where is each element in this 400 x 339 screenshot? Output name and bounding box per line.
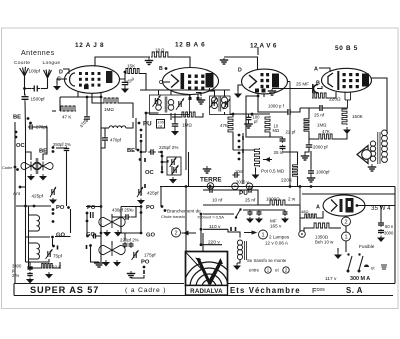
wire left col down [25, 129, 27, 158]
ground col2 [94, 262, 104, 267]
wire heater tr bot [237, 260, 240, 263]
wire 2000pf top [308, 136, 310, 143]
switch bar 110b [235, 227, 237, 231]
wire 3400 top [29, 262, 31, 265]
wire 47pf top [86, 97, 88, 115]
svg-text:GO: GO [56, 233, 66, 239]
osc bowtie coil 2 [99, 244, 125, 256]
svg-text:100pf: 100pf [29, 69, 41, 74]
capacitor mf a [248, 210, 253, 216]
ground bowtie2 b [113, 260, 121, 267]
ground 150K [343, 127, 351, 134]
capacitor AVC bypass [172, 121, 179, 129]
wire long bus y186 [160, 186, 395, 188]
arrow into circled1 [244, 231, 256, 234]
node antenna [23, 87, 26, 90]
svg-text:47K: 47K [322, 129, 330, 134]
svg-text:A: A [316, 205, 320, 211]
capacitor 47pf [84, 114, 90, 122]
cap mark col2 a [91, 212, 94, 218]
capacitor 100pf det [246, 114, 252, 122]
svg-text:OC: OC [16, 143, 26, 149]
node x186 bus [185, 185, 188, 188]
wire bowtie1 top [111, 214, 113, 217]
resistor 15K [125, 69, 140, 74]
wire x101 long [100, 130, 102, 262]
wire x121 col [120, 207, 122, 234]
capacitor mf b [257, 210, 262, 216]
ground pot [252, 172, 260, 179]
node V5 plate [356, 204, 359, 207]
capacitor 3400pf a [27, 265, 33, 271]
IF1 secondary winding [168, 100, 174, 111]
wire po row col3 [121, 206, 141, 208]
wire down left column [24, 102, 27, 130]
node be mid [137, 149, 140, 152]
wire r1000 left [258, 204, 269, 206]
svg-text:PU: PU [143, 121, 152, 128]
svg-text:D: D [238, 68, 242, 74]
svg-text:75pf: 75pf [53, 254, 63, 259]
svg-text:1: 1 [261, 232, 264, 238]
wire 220pf joins [124, 233, 126, 241]
wire ant node to cap [25, 88, 32, 90]
resistor 47K IF [228, 116, 233, 133]
ground 22k [45, 272, 53, 279]
tube V3 12AV6 [242, 69, 288, 94]
wire 15K to bus [140, 74, 146, 91]
ant transformer core [36, 158, 38, 174]
wire sw col x70 [70, 209, 72, 233]
circled 1 mid [259, 230, 268, 239]
wire v5 mid [345, 226, 347, 232]
node det y114 [232, 113, 235, 116]
wire longue to cap [41, 88, 48, 90]
wire det col down [242, 133, 244, 170]
svg-text:150K: 150K [352, 114, 364, 119]
wire go row c1 [55, 236, 71, 238]
wire V3 plate right [288, 81, 291, 83]
node x146 y113 [145, 112, 148, 115]
switch contact a [140, 129, 143, 132]
wire heater to V2 [169, 57, 190, 68]
svg-text:D: D [59, 70, 63, 76]
capacitor mf c [283, 210, 288, 216]
wire x141 be down [140, 152, 142, 196]
svg-text:PU: PU [239, 190, 248, 197]
ground 425pf a [49, 198, 57, 204]
ground above V3 [220, 58, 229, 64]
node branchement [164, 209, 167, 212]
wire 220 left [312, 94, 313, 99]
svg-text:430pf 25‰: 430pf 25‰ [112, 208, 134, 213]
wire IF1 top right [170, 90, 172, 95]
capacitor 25MF electrolytic [313, 84, 318, 93]
antenna Courte [20, 67, 29, 84]
wire 2000pf gnd [305, 149, 309, 153]
wire V3 below [257, 94, 259, 97]
wire be 225 right [158, 152, 162, 156]
capacitor 1000pf coup [285, 109, 293, 115]
trimmer IF1 secondary [176, 98, 184, 109]
tube V2 12BA6 [163, 68, 219, 95]
node B V2 [165, 67, 168, 70]
wire pot gnd lk [255, 168, 257, 173]
sw po2 a [86, 212, 89, 215]
trimmer mid b [172, 165, 179, 175]
title band rule top right [228, 283, 395, 285]
switch bar oc3 [144, 184, 146, 188]
title band rule top left [14, 283, 184, 285]
node mains a [200, 228, 203, 231]
svg-text:12 A J 8: 12 A J 8 [75, 42, 104, 49]
resistor 47K af [318, 134, 333, 139]
svg-text:25 nf: 25 nf [274, 150, 285, 155]
node mains top [200, 213, 203, 216]
node 25nf [124, 71, 127, 74]
osc coil left b [29, 243, 40, 259]
capacitor 50nf [378, 221, 384, 227]
wire po row col2 [86, 206, 101, 208]
terminal PU a [232, 183, 239, 190]
wire bus y90 [140, 89, 192, 91]
capacitor 1500pf [22, 94, 29, 103]
node bus y186 a [209, 185, 212, 188]
wire IF2 sec down [230, 115, 233, 117]
osc bowtie coil 1 [99, 216, 125, 228]
wire x343 down [344, 92, 346, 101]
wire go row col2 [97, 235, 101, 237]
capacitor 220pf b [129, 242, 134, 248]
sw go2 a [86, 235, 89, 238]
wire V3 cath gnd [238, 85, 243, 91]
wire x186 logo [185, 187, 187, 206]
sw go3 a [140, 232, 143, 235]
svg-text:SUPER AS 57: SUPER AS 57 [30, 285, 99, 295]
svg-text:220pf 2%: 220pf 2% [120, 238, 139, 243]
node cadre a [14, 166, 17, 169]
ground 1000pf tone [307, 176, 316, 182]
IF2 primary winding [212, 97, 218, 109]
wire be left lead [141, 151, 146, 153]
svg-text:165 v: 165 v [270, 224, 282, 229]
svg-text:225pf 2%: 225pf 2% [159, 145, 178, 150]
svg-text:220Ω: 220Ω [329, 97, 341, 103]
capacitor 1000pf tone [308, 168, 314, 176]
trimmer 175pf [132, 250, 139, 260]
wire pu caps [203, 189, 208, 191]
wire 270 right [34, 127, 47, 140]
svg-text:PO: PO [87, 205, 96, 211]
trimmer mid a [170, 157, 177, 167]
svg-text:S. A: S. A [346, 286, 363, 295]
antenna Longue [44, 70, 52, 89]
capacitor 25nf ag [317, 105, 325, 111]
switch lever 700mv [236, 210, 240, 217]
terminal left v5 [299, 231, 306, 238]
terminal TERRE [207, 183, 214, 190]
IF1 can box [150, 95, 190, 115]
tube V5 35W4 [323, 195, 365, 216]
wire 1350 left [304, 228, 313, 231]
wire 1M af top [308, 108, 310, 118]
sw po1 a [52, 220, 55, 223]
svg-text:BE: BE [127, 148, 135, 154]
output transformer secondary [370, 141, 375, 161]
resistor 18 ohm [151, 52, 169, 57]
capacitor 25nf line [246, 187, 253, 193]
ground heater [145, 57, 154, 65]
ground trim mid [169, 177, 177, 184]
wire 25MF right [317, 86, 322, 89]
wire mf caps row [243, 209, 285, 211]
svg-text:Ant: Ant [13, 191, 21, 196]
wire trim mid link [171, 166, 173, 174]
wire gnd 1350 [337, 248, 339, 252]
wire oc col [161, 156, 163, 172]
wire x136 long [135, 118, 137, 150]
svg-text:1000Ω: 1000Ω [266, 197, 280, 202]
wire sw col x141 [140, 207, 142, 234]
svg-text:250pf 2%: 250pf 2% [53, 142, 71, 147]
svg-text:GO: GO [146, 233, 156, 239]
svg-text:MΩ: MΩ [273, 128, 280, 133]
trimmer IF2 primary [209, 98, 216, 109]
resistor 1M AVC [181, 112, 196, 117]
wire x161 down [160, 187, 162, 208]
svg-text:1500pf: 1500pf [31, 97, 46, 102]
svg-text:50 n f: 50 n f [385, 224, 396, 229]
circled 2 mid [172, 228, 181, 237]
wire sw col x86 [86, 213, 88, 236]
wire AVC left [172, 116, 181, 118]
node osc coil a [33, 205, 36, 208]
node x25 y206 [24, 205, 27, 208]
sw po3 b [140, 211, 143, 214]
wire C to tube V1 [62, 78, 67, 80]
wire tr1 left top [26, 152, 32, 160]
capacitor 100pf [31, 86, 40, 92]
ground 1350 [334, 252, 342, 259]
wire IF1 top left [158, 90, 160, 95]
wire ot top [386, 131, 388, 133]
wire oc trim [162, 160, 168, 162]
capacitor 470pf [102, 135, 108, 143]
wire x300 to term [299, 205, 301, 231]
svg-text:47K: 47K [220, 123, 228, 128]
wire 270 to tr1 [43, 140, 47, 160]
ground below V3 [234, 91, 242, 98]
node 425 b [52, 212, 55, 215]
svg-text:B: B [159, 66, 163, 72]
wire bus y205 left [203, 204, 258, 206]
ground terre [203, 166, 212, 173]
svg-text:entre: entre [249, 268, 260, 273]
wire terre up [209, 184, 211, 186]
svg-text:2000 pf: 2000 pf [313, 145, 328, 150]
sw det a [238, 134, 241, 137]
wire x290 v [289, 82, 291, 187]
capacitor 270pf [28, 125, 34, 130]
wire 220 row [203, 244, 222, 246]
node be mid2 [140, 151, 143, 154]
svg-text:BE: BE [39, 148, 47, 154]
sw po2 b [86, 220, 89, 223]
wire x186 from res [185, 119, 187, 150]
title band rule bottom [14, 295, 393, 297]
svg-text:BE: BE [13, 115, 21, 121]
wire 50nf top [380, 206, 382, 222]
svg-text:22 pf: 22 pf [286, 130, 297, 135]
node bus y186 c [310, 185, 313, 188]
ground mf c [281, 217, 289, 223]
ground heater tr [233, 263, 241, 270]
wire mid gnd [131, 275, 144, 278]
capacitor 3000 [378, 229, 384, 234]
svg-text:220K: 220K [281, 178, 293, 184]
sw po3 a [140, 205, 143, 208]
wire D to tube V1 [63, 69, 69, 74]
resistor 1350 ohm [313, 223, 330, 228]
svg-text:( a Cadre ): ( a Cadre ) [125, 287, 166, 294]
sw go3 b [161, 205, 164, 208]
capacitor go2 [92, 234, 97, 239]
resistor 220K [293, 164, 298, 177]
svg-text:B: B [316, 81, 320, 87]
ground bowtie1 b [114, 230, 122, 237]
wire grid leak [92, 93, 103, 103]
svg-text:12 A V 6: 12 A V 6 [250, 43, 277, 50]
capacitor 100nf box [157, 120, 165, 129]
trimmer IF1 primary [153, 95, 161, 106]
wire cathode down [60, 92, 78, 97]
svg-text:15K: 15K [127, 64, 136, 69]
svg-text:Se transfo se monte: Se transfo se monte [247, 258, 287, 263]
switch contact b [140, 140, 143, 143]
wire 250pf down [66, 153, 68, 207]
capacitor 25nf [122, 79, 129, 87]
svg-text:48Ω: 48Ω [301, 209, 308, 214]
ground 3400 [26, 278, 34, 284]
wire V4 right [372, 78, 388, 131]
switch be2 a [52, 146, 55, 149]
wire 430pf lead [131, 207, 136, 218]
wire go row left [26, 236, 51, 238]
wire right frame x395 [394, 187, 396, 284]
wire left frame x15 [14, 122, 16, 284]
wire 47K join [59, 97, 61, 111]
svg-text:12 B A 6: 12 B A 6 [175, 42, 205, 49]
sw po4 a [143, 266, 146, 269]
wire 47K af left [309, 132, 318, 139]
wire 700mv row [203, 213, 234, 215]
ant transformer left winding [21, 161, 41, 170]
wire v3 stub [263, 94, 265, 97]
wire v5 left [300, 217, 304, 219]
wire v3 grid [246, 96, 270, 137]
svg-text:175pf: 175pf [144, 253, 156, 258]
capacitor 250pf [64, 147, 70, 153]
wire x350 down [350, 92, 352, 101]
node cadre b [16, 168, 19, 171]
capacitor 220pf a [123, 242, 128, 248]
svg-text:25 nf: 25 nf [314, 113, 325, 118]
wire mains col [200, 229, 202, 244]
wire 22k left [29, 259, 42, 268]
wire v4 to 150K [347, 100, 349, 108]
IF1 core [165, 97, 167, 113]
wire antenna junction [24, 84, 26, 95]
node bus y186 b [299, 185, 302, 188]
wire x141 to be [140, 141, 142, 152]
wire avc cap top [174, 113, 176, 122]
wire pu caps3 [253, 190, 258, 205]
wire tr5 link [28, 231, 30, 243]
wire left col join [25, 158, 27, 206]
wire v5 low [345, 241, 347, 252]
wire 25MF left [272, 88, 312, 90]
switch lever mains a [348, 256, 352, 270]
switch oc1 a [15, 131, 18, 134]
resistor 22K [41, 264, 53, 269]
sw oc b [161, 161, 164, 164]
svg-text:25 nf: 25 nf [245, 198, 256, 203]
heater transformer winding [237, 240, 242, 260]
wire 470pf [104, 128, 106, 136]
sw det d [238, 152, 241, 155]
svg-text:1MΩ: 1MΩ [317, 123, 327, 128]
wire 1350 right [330, 227, 341, 229]
resistor 1000 ohm [269, 200, 286, 205]
inductor osc coil [109, 126, 126, 128]
IF2 secondary winding [222, 97, 228, 109]
wire 220K top [283, 152, 298, 164]
wire 47k det top [232, 114, 234, 116]
wire det down [232, 133, 234, 150]
node mains b [200, 243, 203, 246]
svg-text:PO: PO [146, 205, 155, 211]
wire 10m bottom [270, 133, 283, 137]
node x101 y206 [100, 205, 103, 208]
resistor pot 0.5M [255, 148, 260, 167]
svg-text:Courte: Courte [14, 60, 30, 66]
ground below V1 [53, 84, 61, 91]
wire det bus [230, 113, 270, 115]
wire 1M right [119, 103, 133, 118]
svg-text:1MΩ: 1MΩ [182, 123, 192, 128]
capacitor 225pf [148, 149, 155, 155]
wire 1000pf left [258, 96, 286, 112]
wire col2 down [91, 246, 100, 263]
wire coil a top [28, 206, 30, 215]
wire 25nf left [300, 107, 318, 109]
switch bar a [140, 134, 142, 138]
svg-text:2: 2 [344, 219, 347, 225]
svg-text:RADIALVA: RADIALVA [190, 288, 223, 295]
wire left col x25 [25, 206, 27, 262]
svg-text:18 Ω: 18 Ω [155, 48, 165, 53]
switch bar oc [161, 166, 163, 170]
svg-text:2 w: 2 w [288, 197, 296, 202]
svg-text:Pot 0,5 MΩ: Pot 0,5 MΩ [261, 169, 285, 174]
ground switch mid [127, 271, 136, 278]
node cath bus [100, 96, 103, 99]
sw det b [238, 140, 241, 143]
wire V1 plate right [120, 74, 126, 80]
wire v5 down [345, 216, 347, 217]
wire mains col up [200, 214, 202, 229]
svg-text:1: 1 [344, 234, 347, 240]
